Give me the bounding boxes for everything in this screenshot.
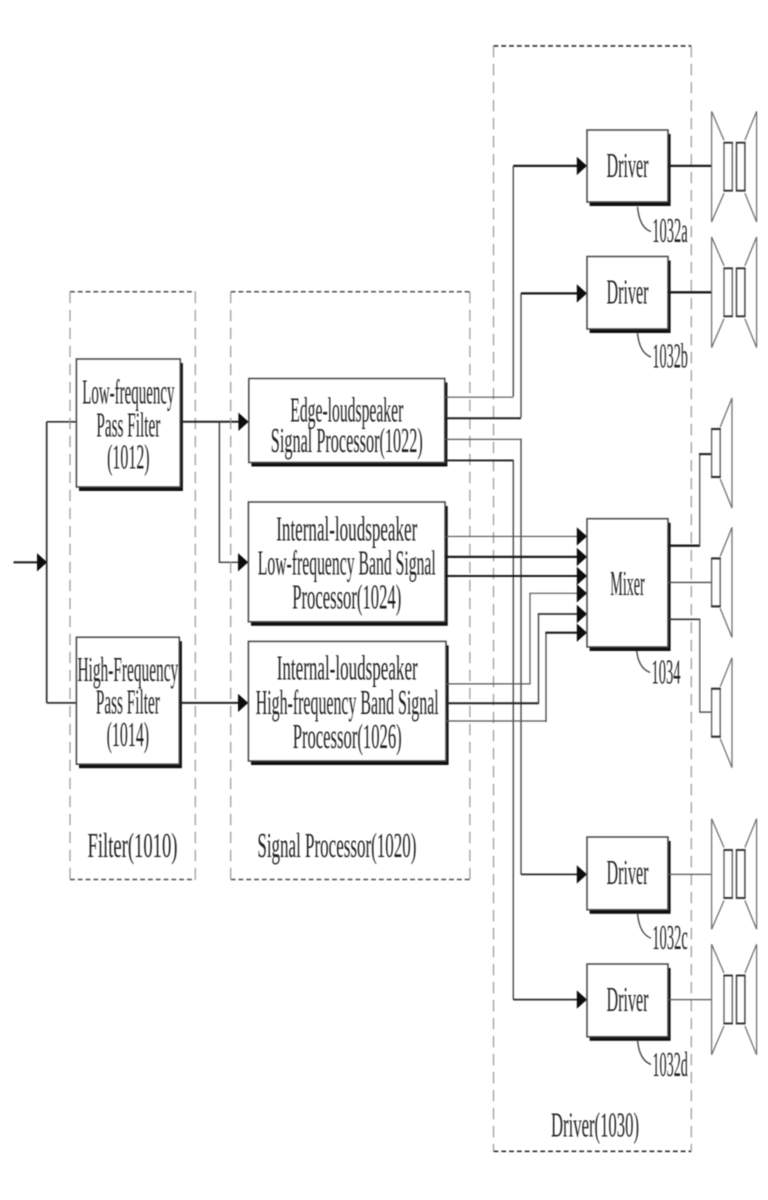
wire LPF to 1022 with arrow bbox=[180, 413, 248, 431]
svg-text:Driver: Driver bbox=[607, 272, 649, 311]
label 1032d bbox=[638, 1041, 689, 1084]
internal loudspeaker 3 bbox=[711, 658, 732, 768]
svg-text:Driver(1030): Driver(1030) bbox=[551, 1105, 639, 1144]
wire 1022 out2 up to driver 1032b bbox=[445, 293, 521, 418]
wire driver 1032c to speaker bbox=[668, 873, 712, 875]
wire mixer out1 to internal speaker 1 bbox=[668, 454, 712, 547]
svg-text:Processor(1024): Processor(1024) bbox=[292, 577, 401, 616]
dual loudspeaker for driver 1032d bbox=[712, 944, 757, 1055]
svg-text:(1012): (1012) bbox=[107, 437, 150, 476]
wire 1022 out3 down to driver 1032c bbox=[445, 439, 521, 875]
wire branch to HPF bbox=[47, 702, 78, 704]
block driver 1032c bbox=[587, 837, 671, 914]
wire 1022 out4 down to driver 1032d bbox=[445, 460, 514, 1000]
wire into driver 1032a with arrow bbox=[513, 157, 587, 175]
wire 1026 out3 to mixer with arrow bbox=[446, 624, 587, 723]
input arrow bbox=[14, 553, 48, 571]
wire into driver 1032d with arrow bbox=[513, 990, 587, 1008]
internal loudspeaker 1 bbox=[711, 398, 732, 508]
wire LPF branch down to 1024 with arrow bbox=[219, 422, 248, 572]
wire 1026 out1 to mixer with arrow bbox=[446, 584, 587, 684]
svg-text:Signal Processor(1022): Signal Processor(1022) bbox=[271, 421, 423, 460]
block driver 1032b bbox=[587, 257, 671, 334]
svg-text:Driver: Driver bbox=[607, 146, 649, 185]
svg-text:Driver: Driver bbox=[607, 853, 649, 892]
svg-text:(1014): (1014) bbox=[107, 715, 150, 754]
wire into driver 1032c with arrow bbox=[521, 865, 587, 883]
svg-text:Mixer: Mixer bbox=[610, 564, 645, 603]
block Edge-loudspeaker Signal Processor 1022 bbox=[249, 379, 448, 467]
wire branch to LPF bbox=[47, 421, 78, 423]
svg-text:1034: 1034 bbox=[652, 653, 681, 692]
block High-Frequency Pass Filter 1014 bbox=[76, 637, 181, 768]
dashed container Filter(1010) bbox=[70, 292, 195, 880]
svg-text:Signal Processor(1020): Signal Processor(1020) bbox=[257, 826, 416, 865]
wire driver 1032a to speaker bbox=[668, 165, 712, 167]
svg-text:Filter(1010): Filter(1010) bbox=[88, 826, 178, 865]
wire driver 1032b to speaker bbox=[668, 291, 712, 293]
block driver 1032d bbox=[587, 964, 671, 1041]
block mixer 1034 bbox=[587, 519, 671, 651]
wire 1022 out1 up to driver 1032a bbox=[445, 166, 514, 397]
wire 1024 out1 to mixer with arrow bbox=[445, 527, 587, 545]
wire HPF to 1026 with arrow bbox=[179, 694, 248, 712]
label 1032a bbox=[638, 207, 688, 250]
wire 1026 out2 to mixer with arrow bbox=[446, 605, 587, 704]
svg-text:Internal-loudspeaker: Internal-loudspeaker bbox=[277, 649, 418, 688]
wire mixer out3 to internal speaker 3 bbox=[668, 619, 712, 713]
label 1032b bbox=[638, 333, 688, 375]
node input-branch vertical bbox=[46, 422, 48, 703]
block Internal-loudspeaker High-frequency Band Signal Processor 1026 bbox=[248, 641, 448, 765]
block Internal-loudspeaker Low-frequency Band Signal Processor 1024 bbox=[248, 502, 447, 626]
svg-text:1032d: 1032d bbox=[652, 1045, 688, 1084]
dual loudspeaker for driver 1032a bbox=[712, 111, 757, 222]
wire 1024 out2 to mixer with arrow bbox=[445, 548, 587, 566]
block driver 1032a bbox=[587, 130, 671, 206]
dashed container Driver(1030) bbox=[494, 46, 692, 1151]
label 1032c bbox=[638, 914, 688, 957]
svg-text:1032a: 1032a bbox=[652, 211, 688, 250]
svg-text:Processor(1026): Processor(1026) bbox=[293, 717, 402, 756]
wire mixer out2 to internal speaker 2 bbox=[668, 581, 712, 583]
wire into driver 1032b with arrow bbox=[521, 284, 587, 302]
dual loudspeaker for driver 1032c bbox=[712, 819, 757, 930]
dual loudspeaker for driver 1032b bbox=[712, 237, 757, 348]
wire driver 1032d to speaker bbox=[668, 999, 712, 1001]
wire 1024 out3 to mixer with arrow bbox=[445, 567, 587, 585]
internal loudspeaker 2 bbox=[711, 527, 732, 637]
svg-text:1032c: 1032c bbox=[652, 918, 688, 957]
label 1034 bbox=[637, 651, 681, 692]
dashed container Signal Processor(1020) bbox=[231, 292, 470, 880]
svg-text:1032b: 1032b bbox=[652, 337, 688, 376]
block Low-frequency Pass Filter 1012 bbox=[76, 359, 182, 491]
svg-text:Driver: Driver bbox=[607, 980, 649, 1019]
